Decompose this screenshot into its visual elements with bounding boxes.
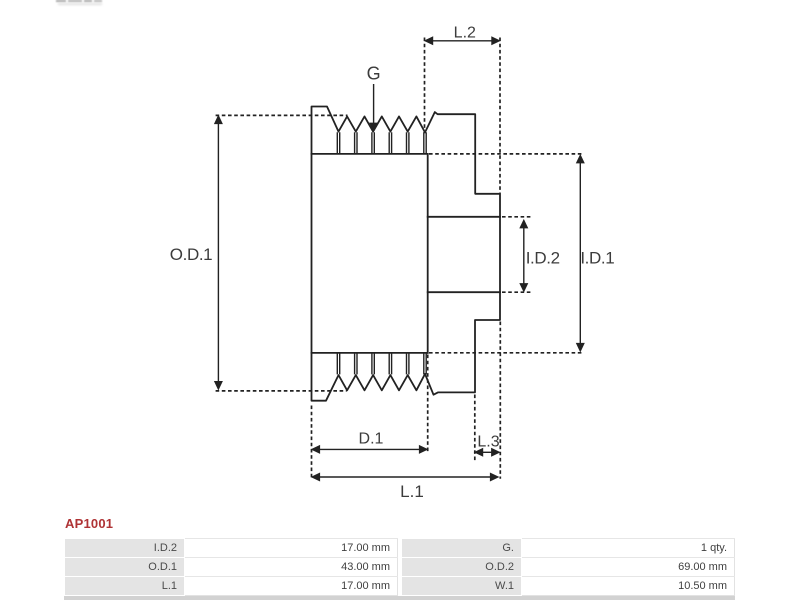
dimension D.1 arrow line bbox=[312, 446, 427, 453]
groove count pointer G bbox=[370, 84, 377, 131]
dimension I.D.1 arrow line bbox=[577, 156, 584, 351]
svg-text:L.2: L.2 bbox=[454, 25, 476, 42]
dimension D.1 extension lines (dashed) bbox=[312, 355, 428, 479]
dimension I.D.2 arrow line bbox=[520, 221, 527, 292]
spec table right bbox=[401, 538, 735, 596]
groove slots bottom bbox=[337, 353, 426, 375]
groove root line top bbox=[312, 153, 428, 155]
pulley outer profile bbox=[312, 107, 501, 401]
svg-text:D.1: D.1 bbox=[359, 431, 384, 448]
svg-text:O.D.1: O.D.1 bbox=[170, 245, 212, 264]
dimension L.3 extension line (dashed) bbox=[474, 395, 476, 462]
bore top line I.D.2 upper bbox=[428, 216, 500, 218]
dimension L.2 extension lines (dashed) bbox=[425, 38, 501, 194]
groove root line bottom bbox=[312, 352, 428, 354]
hub left edge (body right edge) bbox=[427, 154, 429, 353]
cropped watermark text top-left bbox=[56, 0, 66, 2]
dimension I.D.1 extension lines (dashed) bbox=[429, 154, 583, 353]
dimension L.1 arrow line bbox=[312, 474, 498, 481]
svg-text:I.D.1: I.D.1 bbox=[580, 249, 614, 268]
part number AP1001 bbox=[65, 516, 113, 531]
dimension L.1 extension line (dashed) bbox=[499, 322, 501, 479]
bore bottom line I.D.2 lower bbox=[428, 291, 500, 293]
dimension L.3 arrow line bbox=[475, 449, 499, 456]
svg-text:G: G bbox=[367, 64, 381, 84]
svg-text:L.3: L.3 bbox=[477, 433, 499, 450]
next table row edge (cropped) bbox=[64, 596, 735, 600]
dimension I.D.2 extension lines (dashed) bbox=[502, 217, 531, 292]
svg-text:L.1: L.1 bbox=[400, 482, 424, 501]
dimension O.D.1 extension lines (dashed) bbox=[216, 115, 348, 391]
dimension L.2 arrow line bbox=[425, 37, 499, 44]
spec table left bbox=[64, 538, 398, 596]
svg-text:I.D.2: I.D.2 bbox=[526, 249, 560, 268]
dimension O.D.1 arrow line bbox=[215, 116, 222, 389]
groove slots top bbox=[337, 132, 426, 154]
